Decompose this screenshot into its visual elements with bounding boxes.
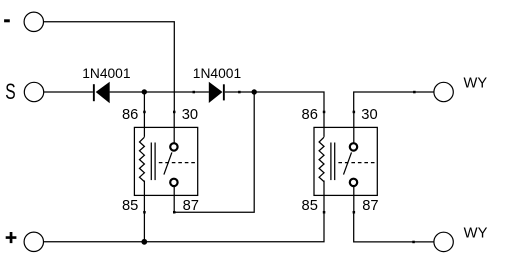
diode D2 cathode bar	[223, 84, 225, 100]
relay K1 pin 86 dot	[143, 111, 146, 114]
relay K1 switch arm	[164, 152, 172, 174]
relay K2 pin 85 lead	[323, 181, 325, 213]
svg-text:86: 86	[302, 107, 318, 123]
svg-text:87: 87	[362, 198, 378, 214]
terminal S (signal input)	[24, 82, 43, 101]
svg-text:WY: WY	[464, 75, 488, 91]
node B junction dot	[252, 89, 257, 94]
relay K1 coil	[140, 137, 145, 181]
pin dot on wire to WY2	[412, 241, 415, 244]
svg-text:30: 30	[361, 107, 377, 123]
wire relay K1 pin 85 down to node C	[143, 212, 145, 242]
terminal PLUS (input "+")	[24, 232, 43, 251]
relay K1 pin 30 dot	[173, 111, 176, 114]
svg-text:85: 85	[122, 198, 138, 214]
wire node A down to relay K1 pin 86	[143, 92, 145, 112]
terminal WY2 (output bottom)	[434, 232, 453, 251]
relay K2 switch arm	[344, 152, 352, 174]
relay K1 pin 85 dot	[143, 211, 146, 214]
relay K1 pin 86 lead	[143, 112, 145, 137]
relay K1 pin 30 lead	[173, 112, 175, 143]
wire plus terminal to relay K2 pin 85 (through node C)	[44, 212, 325, 242]
svg-text:30: 30	[182, 107, 198, 123]
wire node B to relay K2 pin 86	[254, 92, 324, 112]
wire node B down and across to relay K1 pin 87	[174, 92, 254, 212]
relay K2 pin 86 lead	[323, 112, 325, 137]
wire relay K2 pin 30 to terminal WY1	[354, 92, 434, 112]
relay K2 pin 87 lead	[353, 187, 355, 213]
relay K2 pin 30 dot	[353, 111, 356, 114]
diode D1 triangle (pointing left)	[96, 82, 110, 104]
relay K2 top contact circle (pin 30)	[350, 143, 357, 150]
relay K2 pin 85 dot	[323, 211, 326, 214]
relay K1	[122, 107, 199, 214]
relay K2 core line 2	[334, 143, 336, 181]
relay K1 linkage dashed line	[159, 162, 195, 164]
relay K1 core line 1	[150, 143, 152, 181]
wire S terminal to diode D1 cathode	[44, 91, 93, 93]
svg-text:85: 85	[302, 198, 318, 214]
relay K2 pin 86 dot	[323, 111, 326, 114]
svg-text:86: 86	[122, 107, 138, 123]
relay K1 top contact circle (pin 30)	[170, 143, 177, 150]
wire D1 anode to D2 anode (through node A)	[110, 91, 209, 93]
relay K2 body box	[314, 127, 377, 195]
relay K1 bottom contact circle (pin 87)	[170, 179, 177, 186]
label "+"	[6, 232, 17, 243]
relay K2 bottom contact circle (pin 87)	[350, 179, 357, 186]
label "-"	[4, 19, 10, 22]
svg-text:87: 87	[183, 198, 199, 214]
node A junction dot	[142, 89, 147, 94]
diode D2 anode pin dot	[193, 91, 196, 94]
relay K1 body box	[134, 127, 197, 195]
relay K1 pin 85 lead	[143, 181, 145, 213]
relay K2 coil	[319, 137, 324, 181]
relay K2 linkage dashed line	[338, 162, 374, 164]
terminal WY1 (output top)	[434, 82, 453, 101]
svg-text:S: S	[5, 79, 15, 104]
diode D1 cathode bar	[93, 84, 95, 101]
diode D2 triangle (pointing right)	[209, 82, 223, 103]
relay K2 pin 30 lead	[353, 112, 355, 143]
relay K2 pin 87 dot	[353, 211, 356, 214]
terminal MINUS (input "-")	[24, 12, 43, 31]
pin dot on wire to WY1	[413, 91, 416, 94]
svg-text:1N4001: 1N4001	[193, 66, 241, 81]
wire relay K2 pin 87 to terminal WY2	[354, 212, 434, 242]
svg-text:WY: WY	[464, 226, 488, 242]
node C junction dot	[141, 239, 147, 245]
relay K1 pin 87 lead	[173, 187, 175, 213]
relay K1 pin 87 dot	[173, 211, 176, 214]
relay K2 core line 1	[330, 143, 332, 181]
relay K1 core line 2	[154, 143, 156, 181]
relay K2	[302, 107, 379, 214]
wire minus terminal to relay K1 pin 30	[44, 22, 175, 112]
svg-text:1N4001: 1N4001	[82, 66, 130, 81]
diode D2 cathode pin dot	[238, 91, 241, 94]
wire D2 cathode to node B	[225, 91, 254, 93]
